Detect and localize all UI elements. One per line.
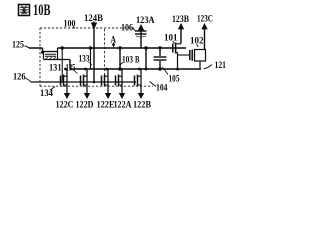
junction top bus / column 120	[118, 46, 122, 50]
output arrow 122E	[105, 93, 111, 99]
mirror transistor 122E	[102, 68, 109, 94]
dashed box 100 top edge	[40, 27, 136, 29]
131 gate-down wire	[61, 48, 63, 82]
output arrow 122B	[138, 93, 144, 99]
svg-text:125: 125	[12, 41, 24, 51]
junction lower bus / capacitor 105 column	[158, 67, 161, 70]
mirror transistor 122C	[61, 68, 68, 94]
svg-text:134: 134	[40, 89, 53, 99]
junction top bus / capacitor 105 column	[158, 46, 161, 49]
svg-text:123C: 123C	[197, 15, 213, 25]
junction lower bus / column 120	[118, 67, 121, 70]
wire column	[145, 48, 147, 69]
svg-text:122E: 122E	[97, 101, 115, 111]
output arrow 122C	[64, 93, 70, 99]
capacitor 105 column	[159, 48, 161, 56]
svg-text:121: 121	[215, 61, 227, 71]
svg-text:100: 100	[64, 20, 76, 30]
svg-text:122C: 122C	[56, 101, 74, 111]
svg-text:101: 101	[164, 34, 178, 44]
inner dashed partition	[104, 29, 106, 86]
capacitor 106	[135, 30, 147, 32]
svg-text:10B: 10B	[33, 2, 51, 19]
top bus	[29, 47, 186, 49]
bus tie wire	[90, 48, 92, 69]
svg-text:105: 105	[169, 75, 180, 85]
figure title 図 10B	[19, 2, 51, 19]
transistor 131	[42, 48, 44, 53]
output arrow 122D	[84, 93, 90, 99]
junction lower bus / transistor 101 source	[176, 68, 179, 71]
junction lower bus / column 146	[145, 68, 148, 71]
svg-text:122A: 122A	[114, 101, 132, 111]
junction top bus / column 146	[144, 46, 147, 49]
svg-text:123A: 123A	[136, 16, 155, 26]
svg-text:104: 104	[156, 84, 168, 94]
wire from top bus down to lower bus	[69, 60, 71, 70]
wire node A column	[119, 48, 121, 69]
junction gate bus / 124B line	[93, 81, 96, 84]
mirror transistor 122B / 104	[135, 68, 142, 94]
lower bus	[70, 68, 201, 70]
svg-text:133: 133	[79, 54, 90, 64]
dashed box 100 left edge	[39, 28, 41, 86]
svg-text:126: 126	[13, 73, 26, 83]
svg-text:122B: 122B	[133, 101, 152, 111]
svg-text:106: 106	[121, 24, 133, 34]
svg-text:B: B	[135, 56, 140, 66]
output arrow 122A	[119, 93, 125, 99]
svg-text:131: 131	[49, 64, 62, 74]
dashed box 100 bottom edge	[40, 85, 153, 87]
svg-text:122D: 122D	[76, 101, 94, 111]
svg-text:103: 103	[122, 56, 133, 66]
mirror transistor 122D	[81, 68, 88, 94]
mirror transistor 122A	[116, 68, 123, 94]
gate bus	[31, 81, 136, 83]
